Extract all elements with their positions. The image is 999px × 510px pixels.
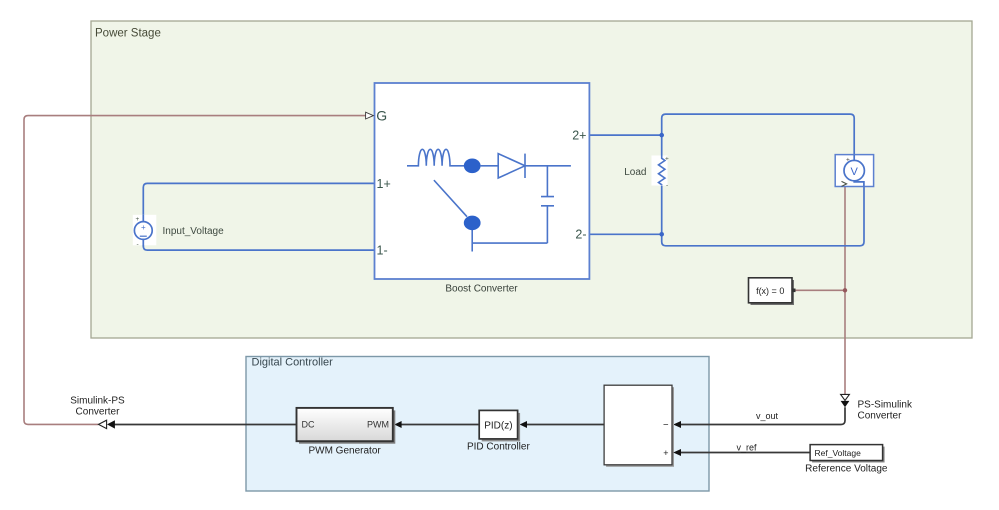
port 2+: [572, 129, 586, 143]
source Input_Voltage: [133, 215, 224, 248]
junction solver node: [843, 288, 847, 292]
inductor (boost converter icon): [407, 149, 464, 165]
block PWM Generator: [297, 408, 396, 456]
svg-text:−: −: [663, 419, 669, 430]
arrowhead into PID: [520, 421, 527, 428]
sensor voltmeter: [835, 155, 873, 187]
svg-text:+: +: [665, 156, 669, 163]
port 1+: [377, 177, 391, 191]
svg-text:-: -: [666, 182, 668, 189]
svg-text:Power Stage: Power Stage: [95, 28, 161, 40]
svg-text:1+: 1+: [377, 177, 391, 191]
svg-text:DC: DC: [302, 420, 315, 430]
svg-text:2+: 2+: [572, 129, 586, 143]
svg-text:Ref_Voltage: Ref_Voltage: [815, 448, 862, 458]
svg-text:G: G: [376, 108, 387, 124]
wire output rail bottom (port 2- to sensor): [589, 187, 864, 246]
svg-text:Boost Converter: Boost Converter: [445, 284, 518, 295]
wire load branch: [661, 135, 663, 234]
svg-text:+: +: [141, 223, 146, 232]
block f(x)=0 solver: [749, 278, 796, 305]
svg-text:Digital Controller: Digital Controller: [252, 357, 334, 369]
svg-text:2-: 2-: [575, 228, 586, 242]
wire input loop (source to ports 1+/1-): [143, 183, 374, 250]
junction node load bottom: [659, 232, 664, 237]
svg-text:v_ref: v_ref: [736, 442, 757, 452]
svg-text:Converter: Converter: [76, 407, 121, 418]
svg-text:PID(z): PID(z): [484, 420, 512, 431]
svg-text:+: +: [846, 156, 850, 163]
wire f(x) to sensor line (brown): [796, 289, 846, 291]
area Power Stage: [91, 21, 972, 338]
wire sum output to PID: [527, 424, 605, 426]
capacitor (boost converter icon): [472, 166, 554, 243]
svg-text:Input_Voltage: Input_Voltage: [163, 226, 225, 237]
arrowhead into PWM: [394, 421, 401, 428]
svg-text:V: V: [851, 166, 859, 178]
port 2-: [575, 228, 586, 242]
block Boost Converter: [375, 83, 590, 295]
converter Simulink-PS (chevrons left): [70, 396, 125, 429]
wire node to diode: [481, 165, 499, 167]
svg-text:PS-Simulink: PS-Simulink: [858, 400, 913, 411]
svg-text:v_out: v_out: [756, 411, 779, 421]
svg-text:+: +: [136, 216, 140, 223]
area Digital Controller: [246, 357, 709, 492]
svg-text:Load: Load: [624, 167, 646, 178]
svg-text:Converter: Converter: [858, 411, 903, 422]
node inductor-switch (filled): [464, 159, 481, 174]
block Ref_Voltage: [805, 445, 888, 475]
block sum (subtract): [604, 385, 674, 467]
resistor Load: [624, 156, 669, 190]
wire gate loop (PWM to port G, brown): [24, 116, 366, 425]
port G (input arrow + label): [366, 108, 388, 124]
junction node load top: [659, 133, 664, 138]
switch (boost converter icon): [434, 180, 481, 251]
svg-text:Simulink-PS: Simulink-PS: [70, 396, 125, 407]
wire PWM output to Simulink-PS: [115, 424, 297, 426]
svg-text:PWM: PWM: [367, 420, 389, 430]
wire PID to PWM: [401, 424, 479, 426]
svg-text:Reference Voltage: Reference Voltage: [805, 463, 888, 474]
svg-text:PWM Generator: PWM Generator: [308, 445, 381, 456]
converter PS-Simulink (chevrons down): [841, 394, 913, 421]
arrowhead into sum minus: [673, 421, 681, 428]
svg-text:+: +: [663, 448, 668, 458]
arrowhead into sum plus: [673, 449, 681, 456]
svg-text:PID Controller: PID Controller: [467, 441, 530, 452]
port 1-: [377, 244, 388, 258]
diode (boost converter icon): [498, 154, 571, 178]
wire v_out (sensor to sum minus): [680, 407, 846, 424]
svg-text:-: -: [137, 241, 139, 248]
wire sensor output down (brown): [844, 187, 846, 395]
block PID Controller: [467, 410, 530, 452]
svg-text:1-: 1-: [377, 244, 388, 258]
wire output rail top (port 2+ to sensor): [589, 114, 854, 155]
wire v_ref (Ref_Voltage to sum plus): [680, 442, 811, 452]
svg-text:f(x) = 0: f(x) = 0: [756, 286, 784, 296]
